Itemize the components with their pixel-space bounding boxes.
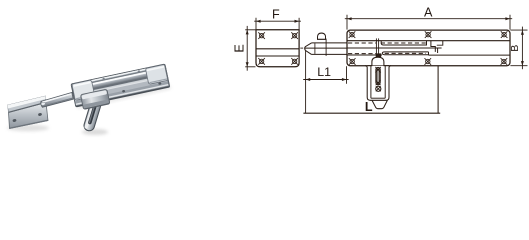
- D leader line: [325, 39, 327, 56]
- lower face shading: [74, 77, 169, 104]
- right end cap: [165, 65, 170, 87]
- hasp dome above body bottom: [372, 57, 384, 65]
- svg-text:A: A: [424, 6, 433, 20]
- ridge front face: [8, 96, 47, 113]
- A dimension: [345, 15, 512, 30]
- keeper plate rect: [256, 30, 299, 67]
- bottom rolled edge: [76, 85, 169, 105]
- svg-text:B: B: [509, 45, 521, 52]
- pivot circle: [376, 86, 381, 91]
- body screw holes bottom row: [349, 58, 356, 65]
- L1 dimension: [303, 51, 348, 113]
- hasp strap below body: white mask fill: [365, 66, 391, 109]
- B dimension: [510, 27, 527, 70]
- body bottom edge segments across strap: [367, 65, 372, 67]
- shadow under keeper plate: [7, 125, 49, 131]
- middle slot: dark gap + rod tube: [90, 70, 152, 91]
- svg-text:E: E: [232, 44, 246, 52]
- shadow under hasp: [82, 129, 108, 135]
- svg-text:L: L: [365, 100, 373, 114]
- hasp taper tip: [372, 100, 387, 108]
- hasp strap outline: [365, 66, 391, 101]
- ridge bottom dark line: [9, 102, 47, 112]
- main plate: [71, 64, 170, 107]
- keeper screw holes: [258, 32, 265, 39]
- svg-text:D: D: [315, 32, 329, 41]
- hasp bracket (photo, over strap): [80, 89, 110, 109]
- ridge top highlight: [8, 96, 46, 109]
- hasp slot: [376, 67, 380, 84]
- top edge highlight + dark line: [72, 65, 164, 85]
- screw holes: [12, 119, 16, 123]
- screw holes lower face: [82, 99, 85, 102]
- shadow under body: [76, 84, 171, 109]
- hasp strap (photo): [83, 90, 105, 132]
- left guide bracket: [72, 80, 95, 100]
- bottom boundary lines (L frame): [303, 66, 440, 114]
- lower guide band: [382, 52, 428, 55]
- main body rect: [347, 30, 510, 66]
- hasp hanger verticals & rivet block: [375, 38, 377, 53]
- handle bracket: [431, 41, 435, 52]
- keeper staple lines: [256, 48, 299, 50]
- bottom edge: [10, 120, 49, 128]
- screw holes top strip: [102, 78, 105, 80]
- E dimension: [245, 26, 255, 71]
- keeper plate (photo): [8, 96, 49, 129]
- upper guide band: [381, 41, 426, 45]
- body interior lines: [347, 41, 510, 55]
- rod protruding (photo): [41, 93, 73, 108]
- right guide bracket: [145, 64, 168, 84]
- pin / rod outside body: [305, 43, 347, 55]
- body (photo): [71, 64, 170, 107]
- svg-text:L1: L1: [317, 65, 331, 79]
- F dimension: [254, 18, 301, 30]
- face: [9, 103, 49, 129]
- svg-text:F: F: [272, 8, 280, 22]
- body screw holes top row: [349, 31, 356, 38]
